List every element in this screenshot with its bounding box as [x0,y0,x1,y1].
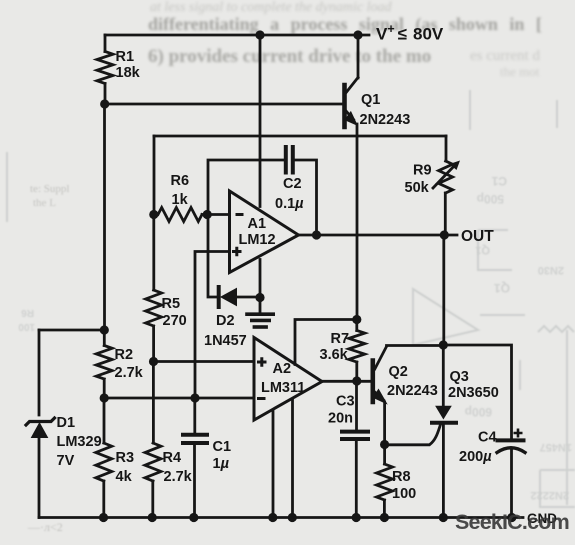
capacitor C4 (polarized) [498,438,524,442]
node rail junction x=511.8 [507,513,516,522]
wire Q1 emitter down (crosses, no dots until R7) [356,124,359,320]
svg-text:LM311: LM311 [261,380,305,396]
capacitor C3 [342,430,368,434]
wire A1 + input [195,252,230,399]
wire A1 output / OUT line [299,234,458,237]
svg-text:2N2222: 2N2222 [530,489,569,501]
svg-text:C2: C2 [283,176,302,192]
wire R3 top [103,398,106,443]
node rail junction x=356.2 [352,513,361,522]
svg-text:3.6k: 3.6k [320,347,349,363]
svg-text:1N457: 1N457 [540,441,572,453]
node R6 left [149,210,158,219]
svg-text:A2: A2 [273,361,292,377]
node A1 output / C2 feedback [312,230,321,239]
wire C2 loop top [208,160,286,215]
node rail junction x=193.8 [189,513,198,522]
svg-text:SeekIC.com: SeekIC.com [455,510,569,534]
svg-text:100: 100 [18,321,35,332]
wire R2 bottom [103,379,106,398]
wire A2 inverting input net [104,397,254,400]
svg-text:0.1µ: 0.1µ [275,196,304,212]
svg-text:50k: 50k [405,180,430,196]
node rail junction x=384.4 [380,513,389,522]
wire A2 gnd pin 1 [272,410,275,518]
wire D1 anode-side down [38,330,41,415]
resistor R1 [97,52,113,84]
wire A2 output to Q2 base [322,380,373,383]
wire Q1 base wire [105,103,345,106]
wire A2 gnd pin 2 [291,400,294,518]
svg-text:100: 100 [392,486,416,502]
wire divider node down to R4 [152,362,155,444]
wire bottom ground rail [39,516,523,519]
svg-text:differentiating a process sign: differentiating a process signal (as sho… [148,14,542,35]
wire R5 bottom to divider node [152,326,155,362]
wire R6 left node down to R5 [152,215,155,291]
wire Q2 emitter down [383,402,386,445]
svg-text:2N2243: 2N2243 [360,112,411,128]
node R6 right / A1 inv input [203,210,212,219]
label A2 plus [257,357,267,367]
diode D2 [217,287,221,307]
node rail junction x=443.3 [439,513,448,522]
svg-text:2.7k: 2.7k [164,469,193,485]
node rail junction x=272.8 [268,513,277,522]
wire R8 to rail [383,500,386,518]
svg-text:Q2: Q2 [389,364,408,380]
wire R8 top [383,445,386,465]
node divider / A2 + input [149,357,158,366]
resistor R4 [145,443,161,481]
svg-text:2.7k: 2.7k [115,365,144,381]
resistor R6 [158,208,202,222]
node OUT / R9 [440,230,449,239]
svg-text:1µ: 1µ [213,456,230,472]
svg-text:the L: the L [33,197,56,209]
label A1 minus [236,213,244,216]
node A1 + / A2 - net junction [190,393,199,402]
svg-text:R5: R5 [162,296,181,312]
transistor Q2 2N2243 [370,361,375,403]
svg-text:R6: R6 [171,173,190,189]
node R1 bottom / Q1 base [100,99,109,108]
resistor R3 [96,443,112,481]
svg-text:2N30: 2N30 [538,264,564,276]
svg-text:C4: C4 [478,430,497,446]
svg-text:20n: 20n [328,411,353,427]
node D1 branch junction [100,325,109,334]
wire R1 bottom to node [104,84,107,105]
svg-text:es current d: es current d [470,48,540,64]
wire R3 to rail [102,481,105,518]
svg-text:C1: C1 [213,439,232,455]
svg-text:2N2243: 2N2243 [387,383,438,399]
capacitor C1 [183,433,207,437]
wire R9 bottom to OUT [444,193,447,235]
svg-text:—·л<2: —·л<2 [27,520,63,534]
svg-text:OUT: OUT [461,228,494,245]
wire R2 top [103,330,106,346]
node R7 top / A2 V+ [352,315,361,324]
wire C3 to rail [355,439,358,518]
wire C2 right to output [293,160,317,235]
wire OUT node down to crowbar junction [442,235,445,345]
svg-text:R1: R1 [116,49,135,65]
node top-rail junction to Q1 collector [353,30,362,39]
SCR Q3 2N3650 [442,345,445,406]
wire C3 top [355,381,358,431]
svg-text:2N3650: 2N3650 [448,385,499,401]
wire left column top (V+ to R1) [104,35,107,52]
wire C1 to rail [193,443,196,518]
svg-text:A1: A1 [248,216,267,232]
node A2 out / R7 / Q2 base [352,376,361,385]
label A1 plus [232,247,242,256]
svg-text:6) provides current drive to t: 6) provides current drive to the mo [148,46,431,67]
wire Q3 cathode to rail [442,425,445,518]
node rail junction x=103.5 [99,513,108,522]
transistor Q1 2N2243 [342,85,347,127]
svg-text:at less signal to complete the: at less signal to complete the dynamic l… [150,0,392,15]
svg-text:te: Suppl: te: Suppl [30,183,69,195]
svg-text:R8: R8 [392,469,411,485]
capacitor C2 [284,147,288,173]
svg-text:the mot: the mot [500,64,540,79]
svg-text:7V: 7V [57,453,75,469]
node top-rail junction to A1 supply [255,30,264,39]
wire R6 right to A1 - input [202,213,230,216]
svg-text:500p: 500p [477,192,504,206]
zener D1 [26,418,55,425]
svg-text:D2: D2 [216,313,235,329]
resistor R7 [349,331,365,363]
resistor R2 [96,346,112,380]
wire A2 noninverting input [154,360,255,363]
label C4 plus [514,429,523,438]
wire left column (node to R2 junction) [103,104,106,330]
wire left feedback column down to R6 [153,136,156,215]
wire D2 column from A1 - node [208,215,217,298]
wire upper feedback rail y136 [154,135,446,138]
svg-text:LM12: LM12 [239,232,276,248]
svg-text:Q3: Q3 [450,369,469,385]
svg-text:C1: C1 [491,174,507,188]
wire A1 V+ pin [259,35,262,207]
svg-text:200µ: 200µ [459,449,492,465]
svg-text:D1: D1 [57,415,76,431]
node rail junction x=152.2 [148,513,157,522]
svg-text:R3: R3 [116,450,135,466]
svg-text:Q1: Q1 [475,244,490,256]
wire R4 to rail [151,481,154,518]
svg-text:C3: C3 [336,394,355,410]
svg-text:Q1: Q1 [361,92,380,108]
svg-text:4k: 4k [116,469,133,485]
svg-text:600p: 600p [465,405,492,419]
svg-text:R6: R6 [21,307,34,318]
svg-text:270: 270 [163,313,187,329]
node crowbar junction Q2c/Q3a/C4 [439,340,448,349]
wire D1 to bottom rail [38,437,41,518]
wire C1 top [193,398,196,435]
wire Q2 collector to junction [387,344,444,347]
wire R9 branch [445,136,448,161]
wire C4 branch [443,345,511,440]
node R2 bottom / A2 inv input net [100,393,109,402]
svg-text:1N457: 1N457 [204,333,247,349]
wire C4 to rail [510,451,513,518]
wire A1 V- pin to ground [259,260,262,298]
op-amp A2 LM311 [254,338,322,421]
op-amp A1 LM12 [230,191,299,273]
ground symbol [259,298,262,314]
node rail junction x=292.3 [288,513,297,522]
node A1 V- / D2 / ground [255,293,264,302]
resistor R8 [377,464,393,500]
rheostat R9 [439,161,453,193]
svg-text:18k: 18k [116,65,141,81]
wire Q3 gate [385,425,441,445]
svg-text:Q1: Q1 [494,281,510,295]
svg-text:R2: R2 [115,347,134,363]
wire to D1 branch [39,329,104,332]
label A2 minus [257,397,266,400]
wire D2 anode to gnd node [237,296,261,299]
svg-text:R7: R7 [331,331,350,347]
node Q2 emitter / R8 / Q3 gate [380,440,389,449]
wire A2 V+ strap [295,320,357,365]
wire top V+ rail [105,34,369,37]
svg-text:R9: R9 [413,163,432,179]
svg-text:R4: R4 [163,450,182,466]
resistor R5 [146,290,162,326]
svg-text:1k: 1k [172,192,189,208]
svg-text:LM329: LM329 [57,434,102,450]
